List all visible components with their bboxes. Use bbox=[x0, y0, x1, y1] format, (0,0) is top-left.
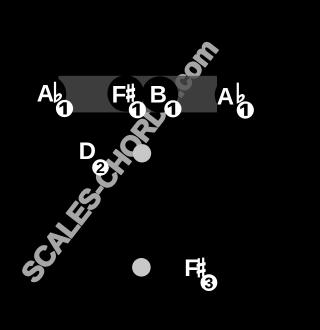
svg-text:2: 2 bbox=[96, 160, 105, 177]
note disc F# low (invisible on black) bbox=[178, 250, 213, 285]
svg-text:A: A bbox=[217, 83, 234, 110]
svg-text:A: A bbox=[37, 81, 54, 108]
finger badge 1 (Ab) bbox=[56, 100, 73, 117]
finger badge 1 (F#) bbox=[129, 101, 146, 118]
note disc F# bbox=[107, 75, 144, 112]
gray scale-note disc low bbox=[132, 258, 151, 277]
finger badge 2 (D) bbox=[92, 159, 108, 175]
gray scale-note disc mid bbox=[133, 144, 151, 162]
finger badge 1 (B) bbox=[164, 100, 181, 117]
note disc Ab (string 6) bbox=[215, 77, 252, 114]
svg-text:F: F bbox=[112, 81, 127, 108]
finger badge 3 (F# low) bbox=[201, 274, 218, 291]
svg-text:B: B bbox=[150, 81, 167, 108]
svg-text:3: 3 bbox=[204, 275, 213, 292]
svg-text:F: F bbox=[184, 255, 199, 282]
finger badge 1 (Ab right) bbox=[237, 101, 254, 118]
note disc B bbox=[142, 76, 179, 113]
svg-text:D: D bbox=[79, 138, 96, 165]
note disc D (invisible on black) bbox=[70, 133, 105, 168]
note disc Ab (string 1) bbox=[30, 76, 67, 113]
fretboard bar bbox=[59, 76, 218, 113]
